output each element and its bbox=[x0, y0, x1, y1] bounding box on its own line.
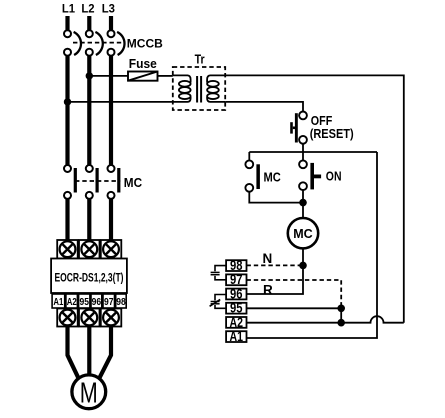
relay EOCR pin 98 bbox=[116, 294, 127, 308]
transformer Tr core bbox=[197, 76, 201, 103]
relay EOCR pin A2 bbox=[66, 294, 78, 308]
node junction MC/ON bbox=[299, 199, 307, 207]
svg-text:EOCR-DS1,2,3(T): EOCR-DS1,2,3(T) bbox=[55, 272, 124, 284]
relay EOCR bottom terminal 1 bbox=[57, 309, 77, 327]
node junction L2-fuse bbox=[86, 72, 93, 79]
wire L1 top stub bbox=[65, 16, 69, 30]
wire MC contact bottom bbox=[249, 192, 303, 203]
svg-text:95: 95 bbox=[80, 297, 90, 308]
svg-text:Tr: Tr bbox=[195, 52, 205, 66]
svg-text:Fuse: Fuse bbox=[129, 56, 157, 71]
breaker MCCB pole 1 bbox=[64, 30, 81, 56]
wire L2 vertical bbox=[87, 56, 91, 165]
wire motor phase 2 bbox=[87, 327, 91, 376]
wire fuse to transformer bbox=[158, 75, 173, 77]
coil MC contactor bbox=[288, 218, 318, 248]
contactor MC power pole 2 bbox=[86, 165, 99, 199]
terminal strip box 95 bbox=[226, 301, 246, 316]
svg-text:98: 98 bbox=[116, 297, 126, 308]
svg-text:MC: MC bbox=[293, 227, 312, 241]
wire L3 vertical bbox=[109, 56, 113, 165]
relay EOCR top terminal 3 bbox=[101, 240, 122, 259]
svg-text:97: 97 bbox=[104, 297, 114, 308]
fuse F1 bbox=[128, 72, 158, 81]
wire R dashed from terminal 97 bbox=[247, 280, 342, 308]
wire fuse feed bbox=[89, 75, 128, 77]
wire L2 top stub bbox=[87, 16, 91, 30]
wire L3 top stub bbox=[109, 16, 113, 30]
svg-text:95: 95 bbox=[230, 301, 243, 316]
wire terminal 95 to jumper bbox=[247, 307, 342, 309]
relay EOCR top terminal 1 bbox=[57, 240, 77, 259]
wire secondary top to right rail bbox=[225, 75, 404, 322]
wire control bus to MC contact bbox=[248, 152, 250, 161]
terminal strip box A2 bbox=[226, 315, 246, 330]
breaker MCCB pole 2 bbox=[86, 30, 103, 56]
wire terminal A2 to right rail with hop bbox=[247, 316, 404, 323]
wire OFF to control bus bbox=[302, 144, 304, 153]
motor M bbox=[72, 375, 106, 410]
wire motor phase 3 bbox=[100, 327, 112, 378]
node junction coil/N bbox=[299, 262, 307, 270]
svg-text:R: R bbox=[263, 282, 273, 297]
node junction 95 bbox=[337, 305, 345, 313]
svg-text:(RESET): (RESET) bbox=[310, 127, 354, 141]
svg-text:L2: L2 bbox=[81, 2, 94, 16]
wire right branch to A1 bbox=[247, 152, 378, 338]
terminal strip box 97 bbox=[226, 272, 246, 287]
svg-text:L1: L1 bbox=[62, 2, 75, 16]
svg-text:97: 97 bbox=[230, 272, 243, 287]
wire jumper 95-A2 bbox=[340, 308, 342, 322]
relay EOCR body bbox=[51, 259, 127, 294]
wire coil to junction 98 bbox=[302, 248, 304, 265]
wire pole2 to EOCR bbox=[87, 199, 91, 241]
relay EOCR top terminal 2 bbox=[79, 240, 100, 259]
wire control bus horizontal bbox=[249, 151, 377, 153]
svg-text:A1: A1 bbox=[53, 297, 63, 308]
wire L1 vertical bbox=[65, 56, 69, 165]
svg-text:L3: L3 bbox=[102, 2, 115, 16]
pushbutton OFF (RESET) NC bbox=[290, 112, 307, 144]
wire pole1 to EOCR bbox=[65, 199, 69, 241]
contactor MC power pole 1 bbox=[64, 165, 77, 199]
breaker MCCB pole 3 bbox=[108, 30, 125, 56]
svg-text:N: N bbox=[263, 251, 273, 266]
wire coil return to terminal 96 bbox=[247, 265, 304, 294]
svg-text:MC: MC bbox=[124, 176, 142, 190]
wire ON bottom bbox=[302, 190, 304, 203]
breaker MCCB linkage dashed bbox=[73, 42, 124, 44]
contactor MC power pole 3 bbox=[108, 165, 121, 199]
svg-text:A2: A2 bbox=[67, 297, 77, 308]
svg-text:ON: ON bbox=[326, 169, 342, 183]
relay EOCR bottom terminal 3 bbox=[101, 309, 122, 327]
relay EOCR pin A1 bbox=[52, 294, 65, 308]
svg-text:96: 96 bbox=[92, 297, 102, 308]
node junction A2 bbox=[337, 319, 345, 327]
wire pole3 to EOCR bbox=[109, 199, 113, 241]
transformer Tr secondary winding bbox=[207, 75, 225, 102]
wire junction to coil bbox=[302, 203, 304, 218]
wire motor phase 1 bbox=[68, 327, 79, 378]
svg-text:A1: A1 bbox=[230, 329, 244, 344]
pushbutton ON NO bbox=[299, 160, 321, 190]
terminal strip box A1 bbox=[226, 329, 246, 344]
svg-text:MC: MC bbox=[264, 171, 281, 185]
node junction L1-control bbox=[64, 98, 71, 105]
wire L1 to transformer bbox=[68, 101, 173, 103]
relay EOCR bottom terminal 2 bbox=[79, 309, 100, 327]
contact EOCR output 98-97 bbox=[211, 266, 227, 280]
terminal strip box 98 bbox=[226, 258, 246, 273]
relay EOCR pin 97 bbox=[103, 294, 115, 308]
wire control bus to ON button bbox=[302, 152, 304, 161]
contact MC auxiliary NO bbox=[245, 160, 259, 191]
contact EOCR output 96-95 bbox=[210, 295, 227, 309]
relay EOCR pin 95 bbox=[79, 294, 90, 308]
wire secondary bottom to OFF button bbox=[225, 102, 303, 112]
svg-text:98: 98 bbox=[230, 258, 243, 273]
svg-text:M: M bbox=[80, 378, 98, 410]
transformer Tr enclosure dashed bbox=[173, 67, 225, 110]
svg-text:96: 96 bbox=[230, 286, 243, 301]
svg-text:OFF: OFF bbox=[311, 114, 333, 128]
transformer Tr primary winding bbox=[173, 75, 191, 102]
svg-text:A2: A2 bbox=[230, 315, 244, 330]
svg-text:MCCB: MCCB bbox=[127, 37, 163, 51]
terminal strip box 96 bbox=[226, 286, 246, 301]
wire N dashed from terminal 98 bbox=[247, 264, 304, 266]
relay EOCR pin 96 bbox=[91, 294, 102, 308]
contactor MC linkage dashed bbox=[75, 180, 120, 182]
